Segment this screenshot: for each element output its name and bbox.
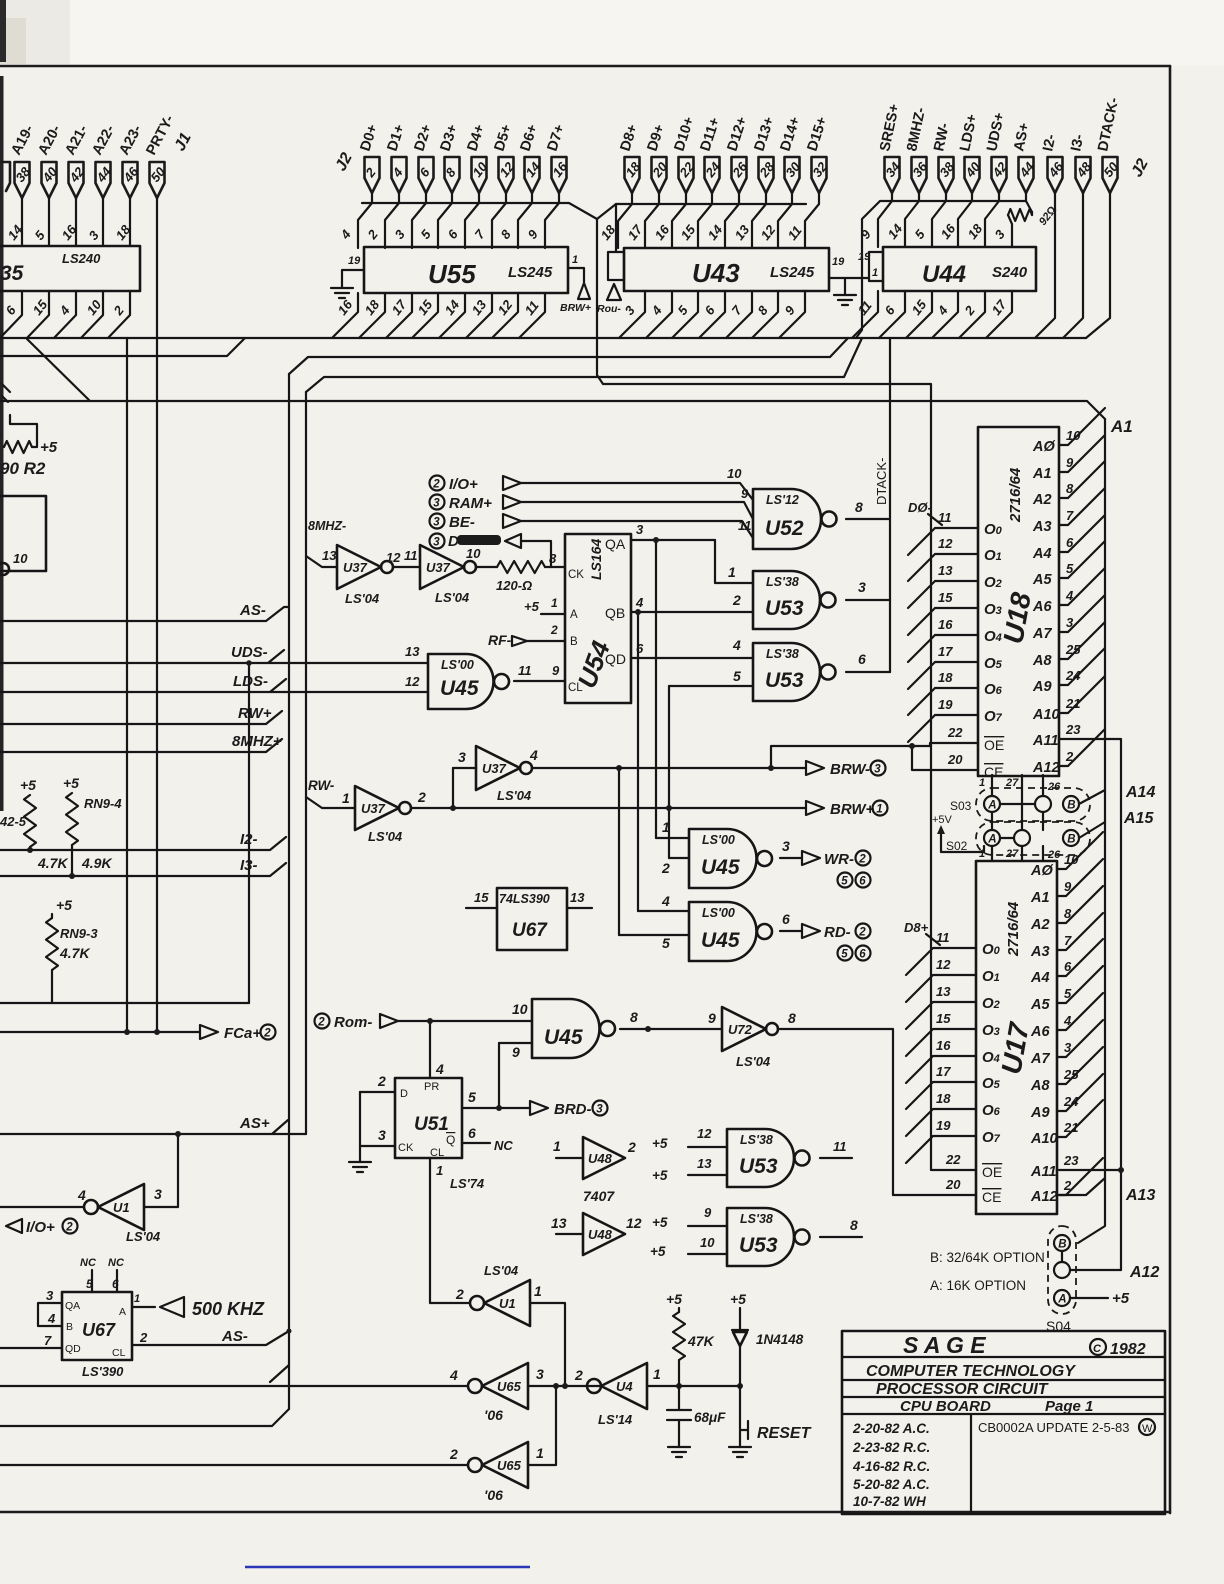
svg-text:U65: U65 <box>497 1379 522 1394</box>
svg-text:11: 11 <box>785 223 805 243</box>
svg-text:A5: A5 <box>1030 997 1050 1013</box>
feed vertical V669 <box>668 686 670 858</box>
svg-text:16: 16 <box>938 221 959 242</box>
svg-text:J2: J2 <box>333 150 356 174</box>
svg-text:BE-: BE- <box>449 514 475 531</box>
svg-text:2: 2 <box>139 1330 148 1345</box>
U53a pin1 wire <box>715 540 753 583</box>
svg-text:7: 7 <box>472 226 489 242</box>
feed vertical V638 QB <box>637 612 639 911</box>
AS- from U67b CL <box>132 1331 289 1345</box>
svg-text:B: B <box>570 636 578 648</box>
vertical V127 <box>126 338 128 1032</box>
svg-text:B: B <box>1058 1238 1066 1250</box>
svg-text:U45: U45 <box>440 677 479 700</box>
svg-text:BRW-: BRW- <box>830 761 870 778</box>
svg-text:LS245: LS245 <box>770 264 815 281</box>
svg-text:22: 22 <box>945 1152 961 1167</box>
svg-text:6: 6 <box>468 1125 476 1141</box>
nand U53c LS38 <box>727 1129 794 1187</box>
svg-text:O2: O2 <box>984 574 1002 591</box>
svg-text:U53: U53 <box>739 1155 778 1178</box>
buffer U55 LS245 <box>348 247 568 293</box>
svg-text:+5: +5 <box>652 1215 668 1230</box>
svg-text:3: 3 <box>433 516 440 528</box>
svg-text:2716/64: 2716/64 <box>1007 467 1024 523</box>
svg-text:18: 18 <box>965 221 986 242</box>
svg-text:A: 16K OPTION: A: 16K OPTION <box>930 1278 1026 1293</box>
svg-text:12: 12 <box>495 297 516 318</box>
svg-text:LS'38: LS'38 <box>766 575 799 589</box>
svg-text:I/O+: I/O+ <box>26 1219 55 1236</box>
svg-text:3: 3 <box>782 838 790 854</box>
svg-text:9: 9 <box>741 486 749 501</box>
svg-text:RN9-3: RN9-3 <box>60 926 98 941</box>
svg-text:8: 8 <box>755 302 772 318</box>
bus H357 with corner to V289 <box>289 338 848 374</box>
svg-text:A3: A3 <box>1030 944 1050 960</box>
svg-text:3: 3 <box>86 227 103 243</box>
svg-text:9: 9 <box>858 226 875 242</box>
bus H356 <box>0 338 245 356</box>
wire U37a to U37b <box>393 566 420 568</box>
U67b left pins <box>38 1303 62 1326</box>
node RW+ <box>0 711 282 724</box>
wires I2- I3- DTACK- down to bus <box>1035 193 1055 338</box>
svg-text:D8+: D8+ <box>904 920 929 935</box>
svg-text:3: 3 <box>433 497 440 509</box>
svg-text:4: 4 <box>435 1061 444 1077</box>
svg-text:3: 3 <box>596 1103 603 1115</box>
svg-text:D11+: D11+ <box>698 116 724 154</box>
svg-text:LS'38: LS'38 <box>740 1212 773 1226</box>
gather line U55 <box>362 203 616 219</box>
svg-text:D6+: D6+ <box>518 123 542 154</box>
svg-text:O5: O5 <box>982 1075 1001 1092</box>
svg-text:A6: A6 <box>1030 1024 1050 1040</box>
node BE- <box>430 514 445 529</box>
left edge wire ticks <box>2 384 10 402</box>
svg-text:2: 2 <box>574 1367 583 1383</box>
svg-text:'06: '06 <box>484 1407 503 1423</box>
svg-text:8: 8 <box>498 226 515 242</box>
inverter U65b <box>0 1464 468 1466</box>
frame right border <box>1169 66 1172 1513</box>
svg-text:15: 15 <box>938 590 953 605</box>
svg-text:A: A <box>987 833 996 845</box>
svg-text:14: 14 <box>885 221 906 242</box>
svg-text:A22-: A22- <box>89 122 118 157</box>
svg-text:B: B <box>1067 833 1075 845</box>
svg-text:A5: A5 <box>1032 572 1052 588</box>
svg-text:10: 10 <box>84 297 105 318</box>
U51 CL down to U1b <box>430 1158 470 1303</box>
svg-text:5: 5 <box>841 948 848 960</box>
svg-text:B: 32/64K OPTION: B: 32/64K OPTION <box>930 1250 1045 1265</box>
svg-text:74LS390: 74LS390 <box>499 892 550 906</box>
svg-text:+5: +5 <box>666 1291 682 1307</box>
DTACK- vertical V890 <box>889 338 891 672</box>
svg-text:A: A <box>987 799 996 811</box>
U44 pin1/19 box <box>869 252 883 281</box>
inverter U37b LS04 <box>420 545 464 589</box>
svg-text:1: 1 <box>876 803 882 815</box>
svg-text:D0+: D0+ <box>358 123 382 154</box>
svg-text:2: 2 <box>317 1016 325 1028</box>
svg-text:LS'74: LS'74 <box>450 1176 485 1191</box>
svg-text:1982: 1982 <box>1110 1341 1146 1358</box>
vertical V306 <box>305 392 307 1134</box>
svg-text:D8+: D8+ <box>618 123 642 154</box>
svg-text:PROCESSOR CIRCUIT: PROCESSOR CIRCUIT <box>876 1381 1049 1398</box>
svg-text:3: 3 <box>154 1186 162 1202</box>
bus M1 horizontal <box>0 337 1086 339</box>
partial gate at left edge <box>0 496 46 571</box>
svg-text:RF-: RF- <box>488 632 512 648</box>
svg-text:12: 12 <box>626 1215 642 1231</box>
svg-text:2: 2 <box>377 1073 386 1089</box>
frame bottom border <box>0 1511 1168 1514</box>
svg-text:U45: U45 <box>544 1026 583 1049</box>
svg-text:6: 6 <box>858 651 866 667</box>
svg-text:DTACK-: DTACK- <box>874 458 889 505</box>
inverter U37a LS04 <box>337 545 381 589</box>
svg-text:120-Ω: 120-Ω <box>496 578 532 593</box>
svg-text:1N4148: 1N4148 <box>756 1332 804 1347</box>
wire bundle U35 outputs <box>0 291 22 338</box>
svg-text:16: 16 <box>335 297 356 318</box>
svg-text:9: 9 <box>782 302 799 318</box>
svg-text:6: 6 <box>782 911 790 927</box>
svg-text:15: 15 <box>936 1011 951 1026</box>
svg-text:U67: U67 <box>512 920 548 941</box>
svg-text:QA: QA <box>65 1300 80 1312</box>
eprom U17 2716/64 <box>976 861 1057 1214</box>
svg-text:O4: O4 <box>982 1049 1000 1066</box>
svg-text:5: 5 <box>675 302 692 318</box>
svg-text:5: 5 <box>468 1089 476 1105</box>
svg-text:12: 12 <box>386 550 401 565</box>
svg-text:15: 15 <box>909 297 930 318</box>
flipflop U51 LS74 <box>395 1078 462 1159</box>
svg-text:LS'390: LS'390 <box>82 1364 124 1379</box>
svg-text:26: 26 <box>1047 849 1061 861</box>
svg-text:U52: U52 <box>765 517 804 540</box>
title block <box>842 1331 1165 1514</box>
svg-text:A20-: A20- <box>35 122 64 157</box>
svg-text:18: 18 <box>938 670 953 685</box>
A1 bus vertical V1105 <box>1078 419 1105 1243</box>
svg-text:OE: OE <box>984 737 1004 753</box>
svg-text:LS'04: LS'04 <box>126 1229 161 1244</box>
svg-text:U44: U44 <box>922 261 966 288</box>
svg-text:I/O+: I/O+ <box>449 476 478 493</box>
svg-text:O1: O1 <box>984 547 1002 564</box>
svg-text:15: 15 <box>30 297 51 318</box>
svg-text:2: 2 <box>858 853 866 865</box>
svg-text:'06: '06 <box>484 1487 503 1503</box>
svg-text:4: 4 <box>648 302 665 318</box>
svg-text:Rou-: Rou- <box>597 303 621 315</box>
svg-text:CK: CK <box>398 1142 414 1154</box>
buffer U48b 7407 <box>556 1233 583 1235</box>
svg-text:10: 10 <box>700 1235 715 1250</box>
svg-text:1: 1 <box>653 1366 661 1382</box>
U17 A11 wire <box>1059 1169 1121 1171</box>
svg-text:QA: QA <box>605 536 626 552</box>
svg-text:S A G E: S A G E <box>903 1332 986 1358</box>
svg-text:AS+: AS+ <box>1011 122 1033 153</box>
vertical V289 <box>288 374 290 1409</box>
svg-text:A3: A3 <box>1032 519 1052 535</box>
resistor 120ohm <box>476 566 497 568</box>
svg-text:LS'12: LS'12 <box>766 493 799 507</box>
inverter U37c <box>453 767 476 769</box>
svg-text:17: 17 <box>389 297 410 318</box>
nand U53b LS38 <box>753 643 820 701</box>
U51 pin5 BRD- <box>462 1107 530 1109</box>
svg-text:A10: A10 <box>1032 707 1060 723</box>
svg-text:Q: Q <box>446 1133 455 1147</box>
svg-text:3: 3 <box>858 579 866 595</box>
counter U67b LS390 <box>62 1292 132 1360</box>
svg-text:7: 7 <box>729 302 746 318</box>
svg-text:NC: NC <box>494 1138 513 1153</box>
svg-text:2: 2 <box>455 1286 464 1302</box>
svg-text:13: 13 <box>322 548 337 563</box>
svg-text:6: 6 <box>445 226 462 242</box>
feed vertical V619 <box>618 768 620 935</box>
eprom U18 2716/64 <box>978 427 1059 776</box>
nand U53d LS38 <box>727 1208 794 1266</box>
svg-text:+5: +5 <box>650 1244 666 1259</box>
svg-text:WR-: WR- <box>824 851 854 868</box>
wire H1003 <box>0 1002 249 1004</box>
svg-text:B: B <box>1067 799 1075 811</box>
svg-text:7: 7 <box>44 1333 52 1348</box>
wire PR riser <box>429 1021 431 1078</box>
wire bundle U55 outputs <box>332 293 358 338</box>
svg-text:13: 13 <box>570 890 585 905</box>
svg-text:D3+: D3+ <box>438 123 462 154</box>
svg-text:A11: A11 <box>1030 1164 1057 1180</box>
svg-text:UDS-: UDS- <box>231 644 268 661</box>
svg-text:15: 15 <box>678 222 699 243</box>
svg-text:RD-: RD- <box>824 924 851 941</box>
svg-text:O6: O6 <box>982 1102 1001 1119</box>
connector J2 flags D0-D7 <box>333 123 571 193</box>
svg-text:U51: U51 <box>414 1114 449 1135</box>
svg-text:DØ-: DØ- <box>908 500 932 515</box>
svg-text:U65: U65 <box>497 1458 522 1473</box>
svg-text:U17: U17 <box>995 1019 1035 1076</box>
svg-text:S03: S03 <box>950 799 972 813</box>
svg-text:4.9K: 4.9K <box>81 855 112 871</box>
svg-text:U37: U37 <box>426 560 451 575</box>
buffer U48a 7407 <box>556 1157 583 1159</box>
U53b pin5 wire <box>669 685 753 687</box>
node BRW+1 wire <box>412 807 806 809</box>
svg-text:8MHZ+: 8MHZ+ <box>232 733 282 750</box>
U18 CE feed <box>912 746 978 770</box>
svg-text:19: 19 <box>936 1118 951 1133</box>
svg-text:42-5: 42-5 <box>0 814 27 829</box>
svg-text:3: 3 <box>433 536 440 548</box>
svg-text:UDS+: UDS+ <box>984 111 1008 153</box>
svg-text:BRD-: BRD- <box>554 1101 592 1118</box>
svg-text:4: 4 <box>732 637 741 653</box>
svg-text:1: 1 <box>436 1163 443 1178</box>
node AS+ <box>0 1120 306 1134</box>
frame top border <box>0 65 1170 68</box>
svg-text:CE: CE <box>982 1189 1001 1205</box>
svg-text:A9: A9 <box>1030 1105 1050 1121</box>
svg-text:16: 16 <box>936 1038 951 1053</box>
svg-text:11: 11 <box>518 663 532 678</box>
svg-text:1: 1 <box>979 777 985 789</box>
U17 OE feed <box>931 1160 976 1170</box>
svg-text:U72: U72 <box>728 1022 753 1037</box>
svg-text:COMPUTER TECHNOLOGY: COMPUTER TECHNOLOGY <box>866 1363 1076 1380</box>
svg-text:LS'04: LS'04 <box>736 1054 771 1069</box>
svg-text:+5V: +5V <box>932 814 953 826</box>
nand U45a LS00 <box>428 654 493 709</box>
svg-text:2: 2 <box>858 926 866 938</box>
svg-text:W: W <box>1142 1423 1153 1435</box>
nand U52 LS12 <box>753 489 821 549</box>
svg-text:12: 12 <box>938 536 953 551</box>
svg-text:FCa+: FCa+ <box>224 1025 261 1042</box>
svg-text:9: 9 <box>552 663 560 678</box>
gather line U44 + bus stub <box>856 201 1026 338</box>
svg-text:U53: U53 <box>765 669 804 692</box>
svg-text:11: 11 <box>833 1139 847 1154</box>
svg-text:17: 17 <box>989 297 1010 318</box>
U53b output6 <box>846 671 890 673</box>
svg-text:QD: QD <box>65 1343 81 1355</box>
svg-text:+5: +5 <box>730 1291 746 1307</box>
svg-text:U53: U53 <box>739 1234 778 1257</box>
svg-text:8: 8 <box>630 1009 638 1025</box>
svg-text:U48: U48 <box>588 1151 613 1166</box>
svg-text:3: 3 <box>636 522 644 537</box>
svg-text:1: 1 <box>134 1293 140 1305</box>
svg-text:O6: O6 <box>984 681 1003 698</box>
svg-text:9: 9 <box>512 1044 520 1060</box>
svg-text:A7: A7 <box>1032 626 1052 642</box>
svg-text:2-20-82 A.C.: 2-20-82 A.C. <box>852 1421 930 1436</box>
svg-text:5: 5 <box>912 226 929 242</box>
svg-text:2: 2 <box>65 1221 73 1233</box>
svg-text:13: 13 <box>936 984 951 999</box>
svg-text:U45: U45 <box>701 856 740 879</box>
wire PRTY- long vertical <box>156 198 158 1032</box>
svg-text:17: 17 <box>625 222 646 243</box>
vertical V249 <box>248 663 250 1003</box>
svg-text:13: 13 <box>469 297 490 318</box>
svg-text:4: 4 <box>77 1187 86 1203</box>
svg-text:RW-: RW- <box>931 122 953 153</box>
svg-text:D15+: D15+ <box>805 115 831 153</box>
svg-text:RW+: RW+ <box>238 705 272 722</box>
svg-text:10: 10 <box>512 1001 528 1017</box>
svg-text:8: 8 <box>850 1217 858 1233</box>
svg-text:6: 6 <box>702 302 719 318</box>
svg-text:LS'04: LS'04 <box>435 590 470 605</box>
wire U43 pin19 to U44 pin1, ground <box>829 278 869 295</box>
svg-text:10: 10 <box>466 546 481 561</box>
wires J1 to U35 <box>21 198 23 246</box>
node Rom- <box>315 1014 330 1029</box>
svg-text:U1: U1 <box>113 1200 130 1215</box>
svg-text:Page 1: Page 1 <box>1045 1398 1093 1415</box>
svg-text:O0: O0 <box>984 521 1003 538</box>
svg-text:U48: U48 <box>588 1227 613 1242</box>
svg-text:8MHZ-: 8MHZ- <box>904 106 929 153</box>
connector J2 control flags <box>877 96 1152 193</box>
svg-text:U1: U1 <box>499 1296 516 1311</box>
nand U45c LS00 RD <box>689 902 757 961</box>
svg-text:J2: J2 <box>1129 156 1152 180</box>
svg-text:17: 17 <box>938 644 953 659</box>
svg-text:A: A <box>1057 1293 1066 1305</box>
svg-text:1: 1 <box>979 848 985 860</box>
svg-text:6: 6 <box>859 875 866 887</box>
svg-text:A10: A10 <box>1030 1131 1058 1147</box>
svg-text:BRW+: BRW+ <box>560 302 591 314</box>
svg-text:C: C <box>1093 1343 1102 1355</box>
svg-text:68μF: 68μF <box>694 1410 726 1425</box>
svg-text:A4: A4 <box>1032 546 1052 562</box>
svg-text:+5: +5 <box>20 777 36 793</box>
svg-text:NC: NC <box>108 1257 125 1269</box>
svg-text:11: 11 <box>855 298 875 318</box>
pin 1 stub + BRW+ arrow <box>568 268 584 282</box>
svg-text:OE: OE <box>982 1164 1002 1180</box>
svg-text:CB0002A UPDATE 2-5-83: CB0002A UPDATE 2-5-83 <box>978 1420 1130 1435</box>
svg-text:11: 11 <box>404 548 418 563</box>
svg-text:A1: A1 <box>1032 466 1052 482</box>
svg-text:6: 6 <box>882 302 899 318</box>
svg-text:O1: O1 <box>982 968 1000 985</box>
nand U53a LS38 <box>753 571 820 629</box>
svg-text:+5: +5 <box>63 775 79 791</box>
U53a output3 to DTACK <box>846 599 890 601</box>
riser to U37c <box>452 768 454 808</box>
vertical V597 from top bus dip <box>597 219 931 1160</box>
svg-text:A4: A4 <box>1030 970 1050 986</box>
svg-text:CK: CK <box>568 569 584 581</box>
svg-text:4: 4 <box>635 595 644 610</box>
svg-text:18: 18 <box>362 297 383 318</box>
svg-text:A8: A8 <box>1032 653 1052 669</box>
svg-text:AS-: AS- <box>239 602 266 619</box>
svg-text:O3: O3 <box>982 1022 1000 1039</box>
svg-text:20: 20 <box>947 752 963 767</box>
svg-text:U37: U37 <box>343 560 368 575</box>
svg-text:5-20-82 A.C.: 5-20-82 A.C. <box>853 1477 930 1492</box>
svg-text:26: 26 <box>1047 781 1061 793</box>
svg-text:4: 4 <box>661 893 670 909</box>
wire U72 out to CE17 <box>780 1029 976 1195</box>
svg-text:+5: +5 <box>56 897 72 913</box>
scan left edge strip <box>0 76 4 811</box>
node FCa+ <box>0 1031 200 1033</box>
svg-text:8: 8 <box>788 1010 796 1026</box>
svg-text:7407: 7407 <box>583 1188 615 1204</box>
svg-text:LS'04: LS'04 <box>484 1263 519 1278</box>
node I3- <box>0 863 286 876</box>
